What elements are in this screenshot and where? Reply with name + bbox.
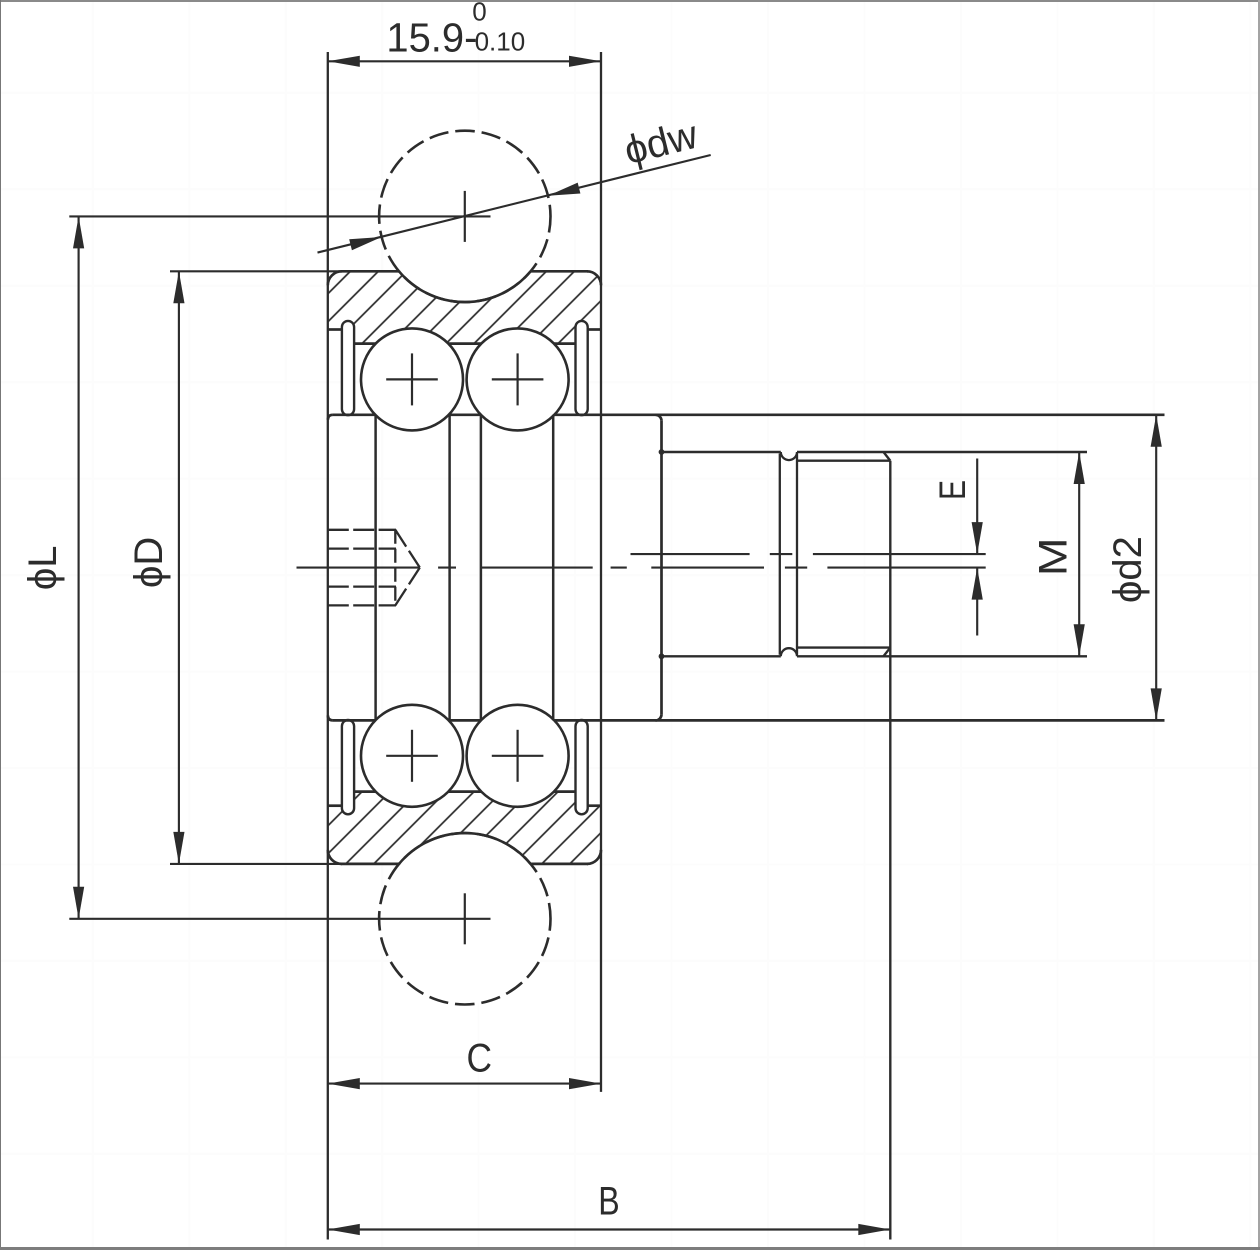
- svg-text:ϕd2: ϕd2: [1106, 536, 1150, 603]
- svg-text:E: E: [932, 480, 973, 500]
- svg-text:15.9-: 15.9-: [386, 14, 477, 60]
- svg-text:ϕdw: ϕdw: [620, 113, 702, 173]
- svg-text:0: 0: [472, 0, 486, 26]
- svg-text:ϕL: ϕL: [21, 545, 65, 590]
- svg-text:C: C: [467, 1037, 493, 1081]
- svg-text:ϕD: ϕD: [127, 537, 171, 588]
- svg-text:B: B: [598, 1179, 619, 1223]
- svg-text:0.10: 0.10: [475, 27, 526, 57]
- svg-text:M: M: [1032, 538, 1076, 577]
